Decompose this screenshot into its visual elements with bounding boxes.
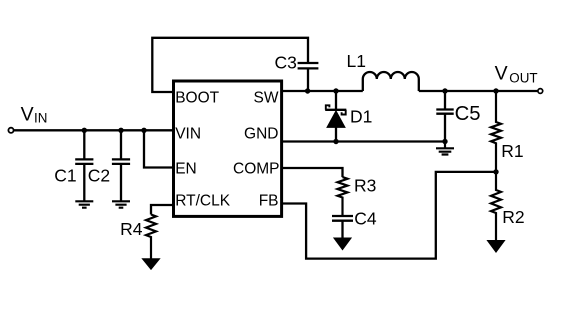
pin label VIN	[175, 126, 201, 143]
label C2	[88, 166, 110, 186]
wire BOOT loop to C3 top	[152, 38, 308, 92]
svg-text:C2: C2	[88, 166, 110, 186]
svg-text:SW: SW	[254, 89, 279, 106]
svg-text:R2: R2	[502, 207, 524, 227]
capacitor C5	[436, 91, 453, 142]
node C5 bottom on GND rail	[442, 139, 447, 144]
svg-text:FB: FB	[259, 193, 279, 210]
wire COMP branch	[281, 168, 343, 177]
node C2 tap	[118, 128, 123, 133]
svg-text:V: V	[495, 63, 508, 85]
svg-text:C1: C1	[54, 166, 76, 186]
pin label COMP	[233, 161, 280, 178]
resistor R3	[338, 177, 348, 216]
svg-text:COMP: COMP	[233, 161, 280, 178]
svg-text:IN: IN	[34, 110, 47, 125]
wire RT/CLK branch	[151, 205, 174, 215]
wire SW rail	[281, 90, 538, 92]
label R3	[354, 176, 376, 196]
wire EN branch	[144, 130, 174, 167]
pin label FB	[259, 193, 279, 210]
capacitor C2	[112, 130, 130, 201]
node R1 top on output rail	[493, 88, 498, 93]
node feedback divider junction	[493, 169, 498, 174]
resistor R1	[491, 91, 501, 172]
wire GND rail	[281, 140, 445, 142]
svg-text:R3: R3	[354, 176, 376, 196]
resistor R2	[491, 172, 501, 241]
ground arrow below R2	[487, 241, 504, 253]
node D1 bottom on GND rail	[333, 139, 338, 144]
capacitor C1	[75, 130, 93, 201]
node C5 top on output rail	[442, 88, 447, 93]
pin label RT/CLK	[175, 193, 231, 210]
capacitor C3	[298, 63, 319, 91]
svg-text:C4: C4	[354, 209, 377, 229]
svg-text:L1: L1	[347, 51, 366, 71]
ground below C1	[75, 201, 93, 207]
label D1	[350, 107, 372, 127]
svg-text:EN: EN	[175, 161, 197, 178]
svg-text:V: V	[21, 103, 34, 125]
pin label EN	[175, 161, 197, 178]
svg-text:C3: C3	[275, 53, 297, 73]
ground arrow below C4	[334, 238, 351, 250]
svg-text:BOOT: BOOT	[175, 89, 219, 106]
label VOUT	[495, 63, 538, 86]
pin label SW	[254, 89, 279, 106]
svg-text:GND: GND	[244, 126, 278, 143]
label R1	[501, 141, 523, 161]
svg-text:VIN: VIN	[175, 126, 201, 143]
label L1	[347, 51, 366, 71]
terminal VOUT output port	[538, 89, 543, 94]
ground arrow below R4	[142, 259, 159, 270]
capacitor C4	[332, 216, 353, 238]
label C4	[354, 209, 377, 229]
inductor L1	[363, 72, 419, 91]
label R4	[120, 219, 143, 239]
label C5	[455, 103, 481, 125]
wire VIN rail	[14, 129, 174, 131]
ground below C2	[112, 201, 130, 207]
svg-text:C5: C5	[455, 103, 481, 125]
svg-text:R1: R1	[501, 141, 523, 161]
node C1 tap	[82, 128, 87, 133]
node C3 bottom on SW rail	[305, 88, 310, 93]
wire FB feedback route	[281, 172, 496, 259]
svg-text:R4: R4	[120, 219, 143, 239]
svg-text:RT/CLK: RT/CLK	[175, 193, 231, 210]
label C3	[275, 53, 297, 73]
svg-text:OUT: OUT	[509, 70, 537, 85]
node EN tap	[141, 128, 146, 133]
pin label BOOT	[175, 89, 219, 106]
resistor R4	[146, 215, 156, 259]
diode D1 schottky	[325, 91, 346, 142]
svg-text:D1: D1	[350, 107, 372, 127]
label C1	[54, 166, 76, 186]
pin label GND	[244, 126, 278, 143]
label VIN supply	[21, 103, 48, 125]
op-amp U1 regulator IC box	[174, 81, 282, 216]
node D1 top on SW rail	[333, 88, 338, 93]
terminal VIN input port	[8, 128, 13, 133]
ground below C5	[436, 142, 454, 155]
label R2	[502, 207, 524, 227]
